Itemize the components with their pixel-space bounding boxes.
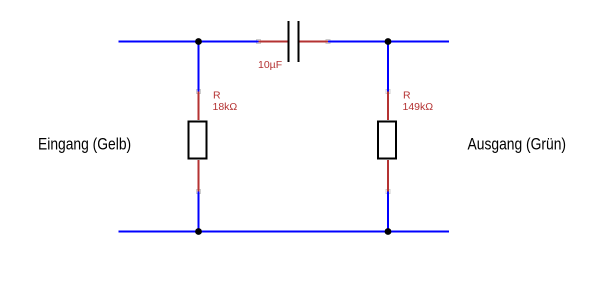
wire: top net, left segment (input to node A) bbox=[119, 41, 259, 43]
junction node D (bottom right) bbox=[385, 228, 392, 235]
svg-text:Ausgang (Grün): Ausgang (Grün) bbox=[468, 135, 567, 153]
wire: node B down to R2 top pin bbox=[387, 42, 389, 92]
pin marker (resistor R2 top pin end) bbox=[386, 90, 390, 94]
junction node A (top left) bbox=[195, 38, 202, 45]
pin marker (capacitor C1 left pin end) bbox=[257, 40, 261, 44]
junction node C (bottom left) bbox=[195, 228, 202, 235]
junction node B (top right) bbox=[385, 38, 392, 45]
pin marker (capacitor C1 right pin end) bbox=[326, 40, 330, 44]
wire: R1 bottom pin down to bottom net bbox=[198, 192, 200, 232]
svg-text:149kΩ: 149kΩ bbox=[403, 101, 434, 113]
wire: bottom net (input to output) bbox=[119, 231, 450, 233]
svg-text:10µF: 10µF bbox=[258, 59, 282, 71]
svg-text:R: R bbox=[403, 90, 411, 102]
svg-text:Eingang (Gelb): Eingang (Gelb) bbox=[38, 135, 131, 153]
pin marker (resistor R2 bottom pin end) bbox=[386, 190, 390, 194]
capacitor C1 (10µF) bbox=[259, 21, 329, 62]
resistor R2 (149kΩ) bbox=[378, 92, 396, 192]
pin marker (resistor R1 bottom pin end) bbox=[197, 190, 201, 194]
resistor R1 (18kΩ) bbox=[189, 92, 207, 192]
svg-text:R: R bbox=[213, 90, 221, 102]
wire: node A down to R1 top pin bbox=[198, 42, 200, 92]
wire: R2 bottom pin down to bottom net bbox=[387, 192, 389, 232]
wire: top net, middle-right segment (capacitor to node B) bbox=[328, 41, 449, 43]
pin marker (resistor R1 top pin end) bbox=[197, 90, 201, 94]
svg-text:18kΩ: 18kΩ bbox=[213, 101, 238, 113]
